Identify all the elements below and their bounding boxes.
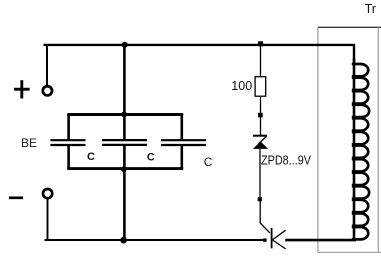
terminal + circle [43,86,52,95]
svg-text:C: C [204,155,213,169]
label + [14,80,30,98]
svg-text:ZPD8...9V: ZPD8...9V [261,153,312,167]
node end of bottom bus at transistor [263,238,266,241]
terminal - circle [43,189,52,198]
node junction bottom wire / middle bus [120,237,127,244]
transistor Q1 [260,201,285,249]
wire thick bottom right to winding [285,239,356,242]
wire zener bottom lead [259,149,261,197]
svg-text:BE: BE [21,136,37,150]
wire capacitor bank top rail [67,113,183,116]
svg-text:C: C [147,152,155,164]
node junction top rail / middle bus [121,112,127,118]
transformer box Tr outline [318,27,381,252]
svg-text:Tr: Tr [365,2,376,16]
label - [9,196,23,199]
capacitor C1 left [50,114,85,170]
node junction top wire / resistor branch [258,41,263,46]
node junction top wire / middle bus [122,42,128,48]
wire middle vertical bus lower [123,145,126,240]
svg-text:C: C [87,151,95,163]
node junction zener / transistor base [258,197,262,201]
capacitor C3 right [161,114,206,170]
wire bottom bus [45,239,266,241]
svg-text:100: 100 [231,79,252,93]
zener diode D1 [253,136,268,149]
wire resistor bottom lead [260,96,262,135]
terminal - lead wire [47,199,49,240]
resistor R1 body [255,77,266,97]
terminal + lead wire [46,45,48,86]
wire capacitor bank bottom rail [67,167,183,170]
capacitor C2 middle [102,140,147,145]
node junction resistor / zener [258,113,263,118]
wire top bus [44,45,355,64]
wire middle vertical bus upper [123,44,126,140]
inductor L1 transformer primary winding [352,58,369,240]
node junction bottom rail / middle bus [121,166,127,172]
wire resistor top lead [260,46,262,77]
